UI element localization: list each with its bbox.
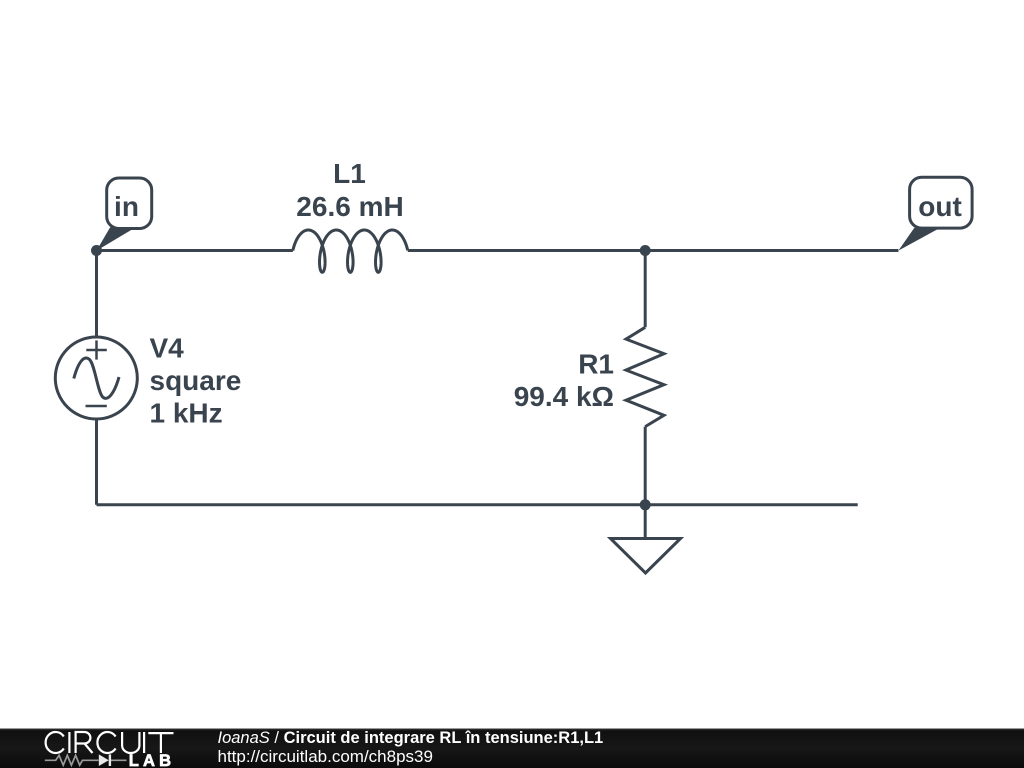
inductor L1: [293, 230, 408, 272]
svg-text:26.6 mH: 26.6 mH: [296, 191, 403, 222]
svg-text:L1: L1: [333, 158, 366, 189]
logo CIRCUIT wordmark: [46, 732, 174, 753]
svg-text:IoanaS / Circuit de integrare: IoanaS / Circuit de integrare RL în tens…: [218, 729, 604, 747]
wire resistor top lead: [644, 251, 647, 328]
wire top left (node in): [97, 249, 293, 252]
svg-text:square: square: [150, 365, 242, 396]
logo diode symbol: [99, 754, 110, 766]
wire top right (node out): [408, 249, 899, 252]
svg-text:V4: V4: [150, 333, 185, 364]
wire left vertical lower: [95, 419, 98, 505]
voltage source V4 body: [55, 337, 137, 419]
voltage source V4 plus sign: [86, 340, 107, 359]
net flag out: [898, 177, 972, 250]
voltage source V4 minus sign: [86, 405, 107, 408]
net flag in: [96, 178, 151, 251]
wire left vertical upper: [95, 251, 98, 338]
svg-text:LAB: LAB: [129, 752, 176, 768]
svg-text:http://circuitlab.com/ch8ps39: http://circuitlab.com/ch8ps39: [218, 747, 433, 766]
node junction dot at out: [640, 245, 651, 256]
wire bottom (ground net): [97, 503, 858, 506]
footer bar: [0, 729, 1024, 768]
svg-text:1 kHz: 1 kHz: [150, 398, 223, 429]
wire ground stub: [644, 505, 647, 539]
resistor R1: [626, 327, 664, 426]
node junction dot at in: [91, 245, 102, 256]
svg-text:out: out: [918, 191, 962, 222]
logo resistor-diode glyph: [45, 755, 127, 765]
ground: [611, 539, 681, 574]
svg-text:99.4 kΩ: 99.4 kΩ: [514, 381, 614, 412]
wire resistor bottom lead: [644, 427, 647, 505]
svg-text:R1: R1: [578, 349, 614, 380]
node junction dot at ground net: [640, 499, 651, 510]
svg-text:in: in: [114, 191, 139, 222]
